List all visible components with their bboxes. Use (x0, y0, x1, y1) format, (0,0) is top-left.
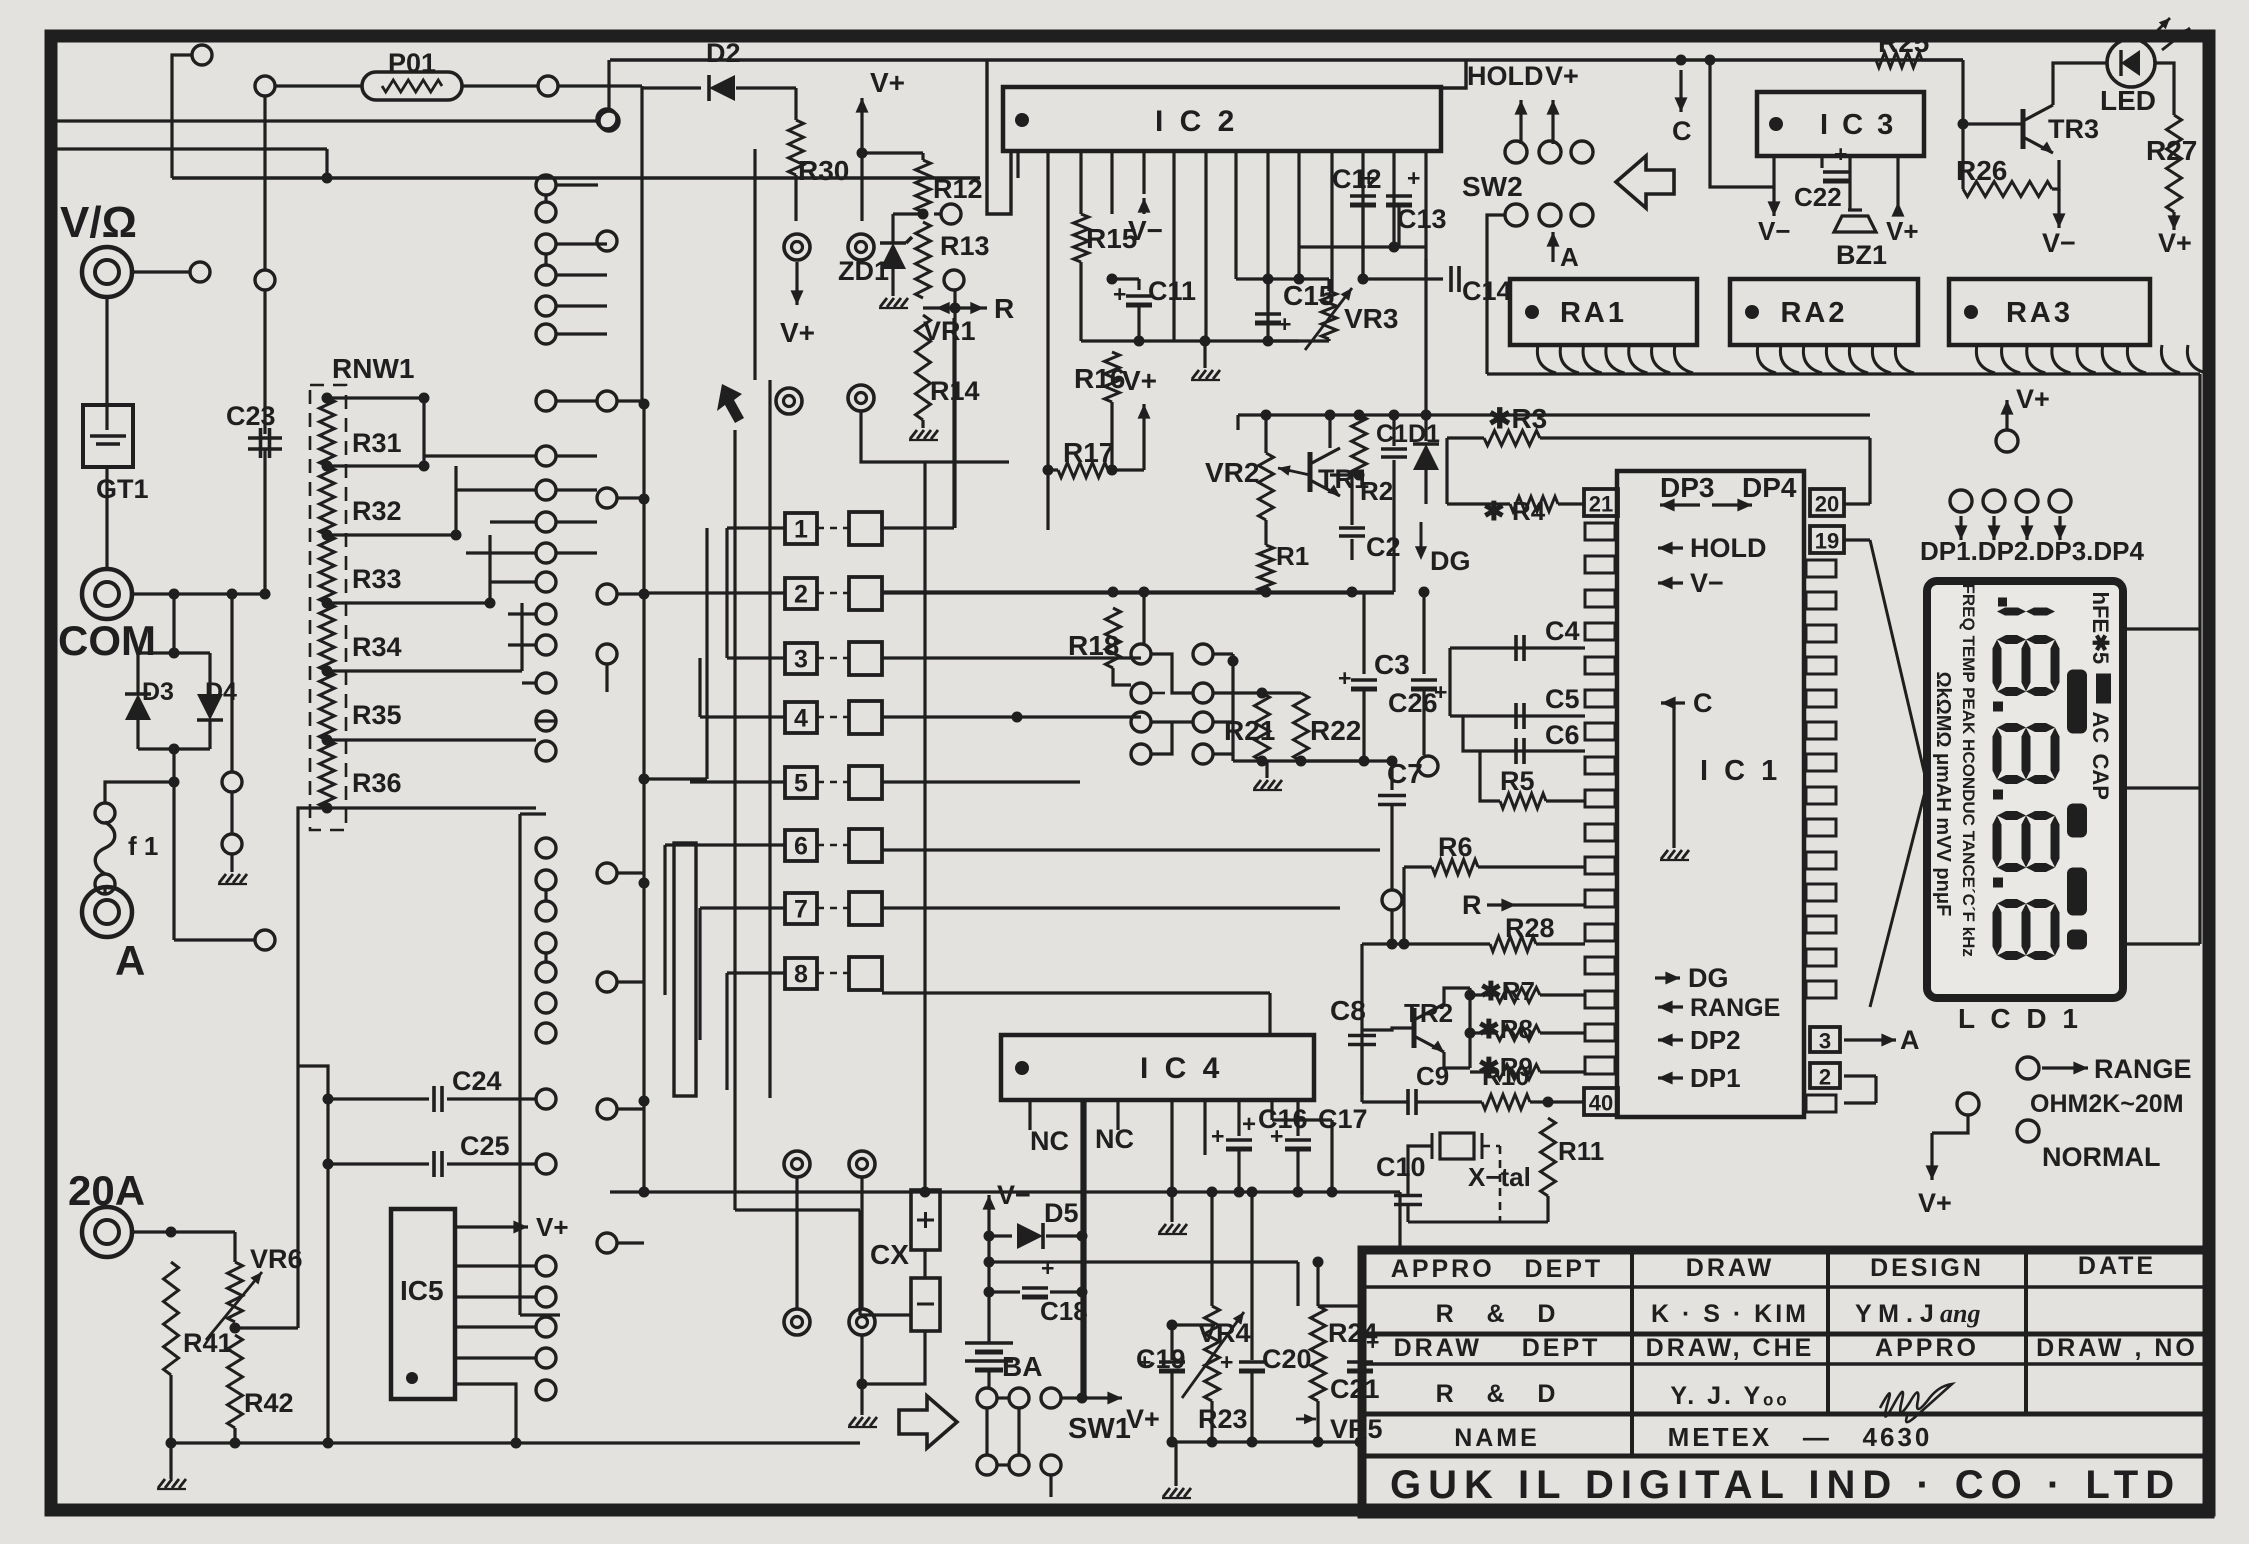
label R42 (244, 1388, 294, 1418)
wire (455, 1384, 516, 1443)
wire (556, 520, 597, 523)
label TR3 (2048, 114, 2099, 144)
switch contact box (849, 766, 882, 799)
wire (1213, 720, 1233, 723)
wire (455, 1295, 536, 1298)
junction (1257, 688, 1268, 699)
resistor R28 (1490, 937, 1536, 952)
resistor network RNW1 dashed box (310, 385, 346, 830)
svg-text:2: 2 (794, 581, 808, 609)
wire (1327, 279, 1330, 291)
junction (920, 1187, 931, 1198)
wire (1530, 1100, 1584, 1103)
label R1 (1276, 541, 1309, 571)
junction (1465, 990, 1476, 1001)
label R&#160;&#160;&#160;&amp;&#160;&#160;&#160;D (1436, 1380, 1559, 1408)
V+ arrow up (856, 98, 869, 140)
switch contact box (849, 892, 882, 925)
wire (556, 454, 597, 457)
svg-text:+: + (1407, 165, 1420, 191)
pad (977, 1455, 997, 1475)
wire (1358, 1372, 1361, 1442)
wire (882, 848, 1380, 851)
svg-text:DATE: DATE (2078, 1252, 2156, 1280)
label DESIGN (1870, 1254, 1984, 1282)
label X&#8722;tal (1468, 1162, 1531, 1192)
svg-text:R36: R36 (352, 768, 402, 798)
wire (263, 290, 266, 434)
label R12 (933, 174, 983, 204)
junction (639, 494, 650, 505)
label DP4 (1742, 472, 1797, 503)
wire (1079, 151, 1082, 214)
svg-text:C18: C18 (1040, 1296, 1088, 1326)
wire (1262, 691, 1301, 694)
label V&#8722; (1758, 216, 1791, 246)
label DRAW , NO (2036, 1334, 2198, 1362)
svg-text:+: + (1834, 141, 1847, 167)
svg-text:D2: D2 (706, 38, 741, 68)
svg-text:V+: V+ (2158, 228, 2192, 258)
pad (536, 391, 556, 411)
svg-text:R17: R17 (1063, 437, 1114, 468)
label CX (870, 1239, 909, 1270)
pad (597, 231, 617, 251)
wire (794, 175, 797, 221)
label R21 (1224, 715, 1275, 746)
junction (322, 173, 333, 184)
wire (1170, 1100, 1173, 1192)
pad (536, 1287, 556, 1307)
wire (1250, 1372, 1253, 1442)
wire (520, 812, 546, 815)
svg-text:C15: C15 (1283, 280, 1334, 311)
resistor VR2 (1259, 453, 1274, 520)
pad (977, 1388, 997, 1408)
pad (1418, 756, 1438, 776)
svg-text:NC: NC (1095, 1124, 1134, 1154)
wire (1536, 942, 1585, 945)
terminal (82, 887, 132, 937)
wire (490, 580, 536, 583)
wire (1110, 402, 1113, 470)
wire (882, 991, 1270, 994)
pad (222, 772, 242, 792)
arrow V+ (1892, 202, 1905, 217)
label C1 (1376, 420, 1408, 448)
label C (1693, 688, 1713, 718)
svg-text:V+: V+ (1886, 216, 1919, 246)
svg-text:METEX — 4630: METEX — 4630 (1668, 1422, 1933, 1452)
svg-text:BZ1: BZ1 (1836, 240, 1887, 270)
svg-text:4: 4 (794, 705, 808, 733)
label RA1 (1560, 297, 1627, 329)
label R31 (352, 428, 402, 458)
pad (597, 1233, 617, 1253)
label V+ (780, 317, 815, 348)
label C13 (1397, 204, 1447, 234)
wire (2198, 374, 2201, 629)
wire (462, 84, 538, 87)
svg-text:K · S · KIM: K · S · KIM (1651, 1300, 1809, 1328)
junction (984, 1231, 995, 1242)
wire (735, 1208, 860, 1211)
svg-text:DP1: DP1 (1690, 1063, 1741, 1093)
resistor R36 (320, 740, 335, 808)
capacitor C14 (1451, 266, 1459, 292)
wire (1404, 865, 1432, 868)
wire (817, 657, 849, 660)
svg-text:R30: R30 (798, 155, 849, 186)
pad (222, 834, 242, 854)
arrow V- (1138, 198, 1151, 214)
label DG (1430, 546, 1471, 576)
label C18 (1040, 1296, 1088, 1326)
svg-text:R12: R12 (933, 174, 983, 204)
svg-text:Y. J. Yₒₒ: Y. J. Yₒₒ (1670, 1382, 1789, 1410)
junction (511, 1438, 522, 1449)
wire (607, 60, 610, 111)
wire (1231, 654, 1234, 761)
wire (1424, 259, 1427, 279)
wire (753, 149, 756, 380)
label D1 (1408, 420, 1440, 448)
label R13 (940, 231, 990, 261)
pad (255, 76, 275, 96)
switch contact box (849, 701, 882, 734)
svg-text:DP4: DP4 (1742, 472, 1797, 503)
pad (1193, 644, 1213, 664)
wire (1330, 1120, 1333, 1192)
junction (1354, 470, 1365, 481)
svg-text:+: + (1113, 281, 1126, 307)
svg-text:R41: R41 (183, 1328, 233, 1358)
label SW1 (1068, 1413, 1131, 1445)
wire (1932, 1115, 1968, 1133)
wire (817, 592, 849, 595)
pad (597, 972, 617, 992)
ground (1191, 370, 1220, 380)
wire (1296, 1100, 1299, 1136)
resistor R32 (320, 466, 335, 535)
svg-text:HOLD: HOLD (1690, 533, 1767, 563)
wire (1238, 413, 1870, 416)
wire (208, 720, 211, 749)
junction (1167, 1437, 1178, 1448)
wire (1318, 1304, 1360, 1307)
label V&#8722; (2042, 228, 2076, 258)
wire (1408, 1146, 1432, 1160)
wire (132, 270, 190, 273)
svg-text:V+: V+ (870, 67, 905, 98)
label R25 (1878, 27, 1929, 58)
wire (1268, 339, 1299, 342)
pad (1041, 1388, 1061, 1408)
wire (1330, 151, 1333, 291)
junction (169, 777, 180, 788)
switch contact box (849, 957, 882, 990)
wire (882, 656, 1141, 659)
ground (848, 1417, 877, 1427)
label I C 3 (1820, 109, 1896, 141)
label 20A (68, 1167, 145, 1214)
wire (1137, 279, 1140, 290)
wire (1540, 993, 1585, 996)
wire (891, 214, 894, 243)
wire (1083, 1100, 1086, 1398)
svg-text:8: 8 (794, 961, 808, 989)
wire (1210, 1401, 1213, 1442)
pad (941, 204, 961, 224)
wire (1546, 1196, 1549, 1222)
wire (1250, 1192, 1253, 1360)
svg-text:CX: CX (870, 1239, 909, 1270)
svg-text:DRAW: DRAW (1686, 1254, 1774, 1282)
svg-text:DRAW , NO: DRAW , NO (2036, 1334, 2198, 1362)
wire (1896, 156, 1899, 202)
junction (1419, 587, 1430, 598)
label BZ1 (1836, 240, 1887, 270)
pad (597, 109, 617, 129)
junction (984, 1287, 995, 1298)
wire (1299, 245, 1394, 248)
wire (454, 466, 457, 535)
wire (921, 153, 924, 160)
wire (1203, 1100, 1206, 1155)
diode D5 (1017, 1223, 1043, 1249)
svg-text:ΩkΩMΩ μmAH mVV pnμF: ΩkΩMΩ μmAH mVV pnμF (1932, 672, 1954, 917)
svg-text:C1: C1 (1376, 420, 1408, 448)
arrow RANGE (2042, 1062, 2088, 1075)
wire (997, 1463, 1009, 1466)
wire (103, 887, 106, 893)
wire (1116, 1100, 1119, 1130)
svg-text:DG: DG (1430, 546, 1471, 576)
wire (518, 814, 521, 1315)
pad (536, 175, 556, 195)
wire (690, 780, 785, 783)
wire (1112, 277, 1139, 280)
junction (1139, 587, 1150, 598)
DP3 arrow in (1660, 499, 1700, 512)
wire (617, 399, 644, 402)
capacitor C23 plates (248, 438, 282, 449)
wire (1016, 151, 1019, 178)
svg-text:V−: V− (1758, 216, 1791, 246)
wire (1266, 279, 1269, 310)
svg-text:GT1: GT1 (96, 474, 149, 504)
wire (860, 1177, 863, 1309)
DP1 arrow (1658, 1072, 1683, 1085)
wire (1264, 415, 1267, 453)
label C (1672, 116, 1692, 146)
wire (1237, 1100, 1240, 1136)
label R11 (1558, 1136, 1604, 1166)
junction (322, 803, 333, 814)
label R36 (352, 768, 402, 798)
pad (255, 930, 275, 950)
svg-text:DESIGN: DESIGN (1870, 1254, 1984, 1282)
svg-text:R10: R10 (1482, 1061, 1530, 1091)
pad (597, 391, 617, 411)
svg-text:OHM2K~20M: OHM2K~20M (2030, 1090, 2184, 1118)
junction (984, 1257, 995, 1268)
svg-text:AC: AC (2088, 712, 2113, 744)
svg-text:R14: R14 (930, 376, 980, 406)
signature (1880, 1384, 1952, 1422)
pad (536, 1154, 556, 1174)
label + (1242, 1111, 1256, 1138)
resistor R18 (1106, 608, 1121, 668)
wire (1422, 690, 1425, 755)
wire (1408, 1221, 1548, 1224)
wire (1061, 1396, 1106, 1399)
wire (1362, 1028, 1414, 1030)
junction (1296, 756, 1307, 767)
wire (327, 533, 456, 536)
wire (882, 906, 1340, 909)
pad (536, 1380, 556, 1400)
label Y M Jang (1855, 1300, 1934, 1328)
junction (1077, 1393, 1088, 1404)
resistor R31 (320, 398, 335, 466)
pad (536, 324, 556, 344)
junction (1012, 712, 1023, 723)
pad (1131, 744, 1151, 764)
wire (610, 1190, 1400, 1193)
wire (544, 195, 547, 202)
svg-text:DRAW DEPT: DRAW DEPT (1394, 1334, 1601, 1362)
label C26 (1388, 688, 1438, 718)
pad (538, 76, 558, 96)
pad (536, 741, 556, 761)
capacitor C19 (1138, 1349, 1185, 1375)
wire (328, 1097, 429, 1100)
wire (921, 420, 924, 428)
svg-text:+: + (1211, 1123, 1224, 1149)
IC IC5 (391, 1209, 455, 1399)
wire (328, 1162, 429, 1165)
wire (1710, 60, 1774, 187)
pad (536, 1317, 556, 1337)
pad (190, 262, 210, 282)
wire (1172, 1440, 1360, 1443)
pad (1539, 204, 1561, 226)
junction (323, 1094, 334, 1105)
wire (298, 1066, 328, 1443)
label DP1 (1690, 1063, 1741, 1093)
svg-text:1: 1 (794, 516, 808, 544)
wire (1424, 470, 1427, 504)
resistor R4 (1510, 497, 1558, 512)
pad (536, 962, 556, 982)
title block rule (1362, 1454, 2210, 1459)
wire (989, 1260, 1298, 1263)
label Y. J. Y&#8338;&#8338; (1670, 1382, 1789, 1410)
svg-text:Y M . J: Y M . J (1855, 1300, 1934, 1328)
svg-text:V+: V+ (2016, 384, 2050, 414)
junction (1358, 274, 1369, 285)
svg-text:V−: V− (997, 1180, 1031, 1210)
pad (1539, 141, 1561, 163)
pad (536, 446, 556, 466)
IC IC3 (1757, 92, 1924, 156)
svg-text:V+: V+ (780, 317, 815, 348)
wire (455, 1356, 536, 1359)
svg-text:C7: C7 (1387, 758, 1423, 789)
wire (1870, 784, 1927, 1007)
label C24 (452, 1066, 502, 1096)
wire (422, 398, 425, 435)
svg-text:V/Ω: V/Ω (60, 198, 137, 247)
resistor R16 (1105, 352, 1120, 402)
wire (610, 58, 1963, 61)
junction (918, 209, 929, 220)
label V+ (1545, 61, 1579, 91)
wire (617, 1107, 644, 1110)
wire (2155, 63, 2174, 115)
label R22 (1310, 715, 1361, 746)
ground (879, 298, 908, 308)
junction (1107, 274, 1118, 285)
wire (727, 656, 785, 659)
wire (987, 61, 1011, 214)
label R&#160;&#160;&#160;&amp;&#160;&#160;&#160;D (1436, 1300, 1559, 1328)
wire (544, 953, 547, 962)
switch contact box (849, 512, 882, 545)
junction (322, 530, 333, 541)
svg-text:C26: C26 (1388, 688, 1438, 718)
svg-text:C3: C3 (1374, 649, 1410, 680)
wire (556, 488, 597, 491)
wire (1360, 1045, 1363, 1095)
wire (1213, 691, 1262, 694)
arrow V+ (1926, 1133, 1939, 1180)
wire (1360, 944, 1363, 1030)
wire (1450, 646, 1585, 649)
label V&#8722; (1690, 568, 1724, 598)
wire (817, 716, 849, 719)
wire (57, 119, 598, 122)
resistor VR6 (228, 1262, 243, 1322)
wire (230, 854, 233, 872)
svg-text:R31: R31 (352, 428, 402, 458)
junction (485, 598, 496, 609)
pad (1571, 204, 1593, 226)
wire (1017, 1408, 1020, 1455)
wire (105, 467, 108, 569)
label C16 (1258, 1104, 1308, 1134)
svg-text:+: + (1270, 1123, 1283, 1149)
label L C D 1 (1958, 1003, 2082, 1034)
label C8 (1330, 995, 1366, 1026)
svg-text:CAP: CAP (2088, 754, 2113, 800)
svg-text:C23: C23 (226, 401, 276, 431)
svg-text:R11: R11 (1558, 1136, 1604, 1166)
pad (1950, 490, 1972, 512)
IC1 left pins (1585, 523, 1615, 1074)
resistor R13 (916, 222, 931, 298)
label TR2 (1404, 998, 1453, 1028)
wire (1210, 1192, 1213, 1306)
svg-text:✱5: ✱5 (2088, 634, 2113, 665)
wire (1233, 759, 1364, 762)
label R35 (352, 700, 402, 730)
wire (556, 551, 597, 554)
label V/&#937; (60, 198, 137, 247)
svg-text:L C D 1: L C D 1 (1958, 1003, 2082, 1034)
pad (1009, 1388, 1029, 1408)
